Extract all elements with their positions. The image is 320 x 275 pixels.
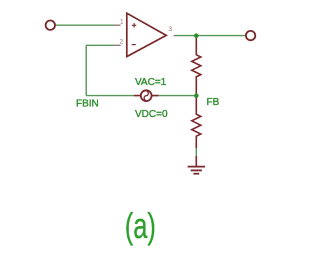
- svg-text:1: 1: [120, 19, 124, 26]
- svg-text:VAC=1: VAC=1: [135, 77, 167, 88]
- svg-text:FBIN: FBIN: [76, 99, 99, 110]
- svg-text:3: 3: [169, 26, 173, 33]
- svg-text:2: 2: [120, 39, 124, 46]
- svg-text:VDC=0: VDC=0: [135, 109, 168, 120]
- svg-text:(a): (a): [125, 205, 156, 247]
- svg-text:FB: FB: [207, 97, 220, 108]
